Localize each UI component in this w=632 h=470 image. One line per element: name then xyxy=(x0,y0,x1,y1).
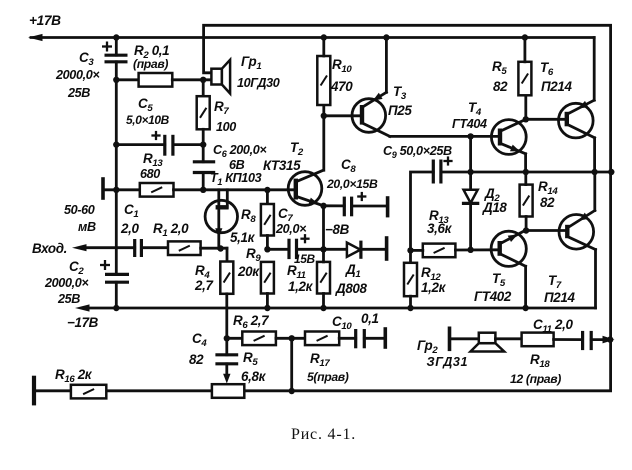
wire +17V top rail xyxy=(31,36,594,39)
wire C3 top stub xyxy=(115,38,118,56)
wire C9 left xyxy=(411,172,434,263)
wire T7 collector down xyxy=(594,250,597,309)
svg-text:2,7: 2,7 xyxy=(194,278,213,293)
junction C2/-17V xyxy=(113,305,119,311)
node D1 output terminal xyxy=(385,238,389,259)
wire R12 to rail xyxy=(409,296,412,308)
wire D2 bottom xyxy=(469,203,472,249)
junction feedback/bottom xyxy=(289,388,295,394)
node +17V arrow terminal xyxy=(28,34,43,41)
resistor R2 xyxy=(139,73,173,87)
junction D2/T5 base xyxy=(467,247,473,253)
svg-text:3,6к: 3,6к xyxy=(427,221,453,236)
junction R12 column/R13 xyxy=(407,247,413,253)
wire R13 to T5 base xyxy=(455,248,499,251)
svg-text:5(прав): 5(прав) xyxy=(307,370,349,384)
resistor R11 xyxy=(317,262,330,294)
svg-text:50-60: 50-60 xyxy=(64,203,95,217)
wire T3 base xyxy=(324,114,362,117)
svg-text:82: 82 xyxy=(540,195,555,210)
junction R6-R17/feedback xyxy=(289,335,295,341)
node C10 output terminal xyxy=(383,329,387,347)
wire node to C7 xyxy=(267,248,289,251)
junction C7 wire/R11 column xyxy=(320,246,326,252)
wire C8 to terminal xyxy=(352,205,388,208)
resistor R17 xyxy=(305,332,339,346)
junction C9 bus/T4 emitter xyxy=(523,169,529,175)
resistor R18 xyxy=(522,333,554,347)
transistor T2 KT315 xyxy=(288,170,323,206)
wire R17 to C10 xyxy=(339,337,356,340)
svg-text:2,0: 2,0 xyxy=(120,221,139,236)
svg-text:−8В: −8В xyxy=(325,222,350,237)
svg-text:2000,0×: 2000,0× xyxy=(44,276,89,290)
wire T5 collector to T7 base xyxy=(526,229,567,232)
capacitor C10 xyxy=(356,329,365,348)
wire R2 to Gr1 node xyxy=(172,78,211,81)
svg-text:0,1: 0,1 xyxy=(361,311,379,326)
wire to C8 xyxy=(324,204,345,207)
node -17V arrow xyxy=(75,304,90,311)
junction T2 emitter node xyxy=(320,203,326,209)
svg-text:Д808: Д808 xyxy=(335,281,368,296)
label C3 plus xyxy=(102,42,112,52)
svg-text:Вход.: Вход. xyxy=(32,241,67,256)
svg-text:5,1к: 5,1к xyxy=(230,230,256,245)
wire R10 to rail xyxy=(322,38,325,57)
wire C9 right bus xyxy=(441,171,611,174)
wire jog down to R4 xyxy=(226,248,229,261)
junction column/probe wire xyxy=(113,187,119,193)
node output arrow xyxy=(603,336,615,344)
svg-text:мВ: мВ xyxy=(78,220,96,234)
resistor R14 xyxy=(520,185,533,217)
wire R18 to C11 xyxy=(554,338,583,341)
junction T5 emitter/-17V xyxy=(522,305,528,311)
capacitor C3 xyxy=(105,55,128,62)
resistor R9 xyxy=(261,262,274,294)
svg-text:Рис. 4-1.: Рис. 4-1. xyxy=(291,426,356,443)
label C9 plus xyxy=(443,156,452,165)
wire C2 to -17V rail xyxy=(115,282,118,308)
svg-text:2000,0×: 2000,0× xyxy=(55,68,100,82)
capacitor C1 xyxy=(135,239,142,257)
wire -17V rail xyxy=(89,307,596,310)
wire outer feedback box xyxy=(36,25,611,391)
wire input to C1 xyxy=(86,246,135,249)
wire C3col to C5 xyxy=(116,143,165,146)
label C5 plus xyxy=(151,131,160,140)
junction R11/-17V xyxy=(320,305,326,311)
wire C1 to R1 xyxy=(141,246,168,249)
junction T4 collector/R5 xyxy=(523,116,529,122)
svg-text:20,0×15В: 20,0×15В xyxy=(326,177,378,191)
junction R9/-17V xyxy=(264,305,270,311)
svg-text:20к: 20к xyxy=(237,264,260,279)
wire T2 collector column xyxy=(322,105,325,170)
svg-text:П214: П214 xyxy=(544,290,575,305)
node C8 output terminal xyxy=(386,198,390,216)
svg-text:82: 82 xyxy=(493,79,508,94)
svg-text:П214: П214 xyxy=(541,79,572,94)
wire C6 to base wire xyxy=(202,173,205,190)
wire C3 to C2 column xyxy=(115,62,118,275)
capacitor C6 xyxy=(193,162,215,173)
junction rail/R10 xyxy=(321,34,327,40)
junction T1 source/input xyxy=(217,245,223,251)
transistor T5 GT402 xyxy=(491,231,526,267)
wire D2 top xyxy=(469,136,472,189)
junction rail/R5 xyxy=(522,34,528,40)
wire R14 top stub xyxy=(524,172,527,185)
wire node to R7 xyxy=(202,80,205,96)
junction C3col/C5 wire xyxy=(113,141,119,147)
capacitor C5 xyxy=(165,135,173,156)
loudspeaker Gr2 xyxy=(471,333,505,352)
junction T3 base tap xyxy=(321,113,327,119)
svg-text:1,2к: 1,2к xyxy=(421,280,447,295)
wire C4 wiper xyxy=(225,364,228,376)
wire gate bus to T2 base xyxy=(174,188,296,191)
label C7 plus xyxy=(300,234,309,243)
resistor R1 xyxy=(168,241,201,255)
capacitor C2 xyxy=(105,274,129,282)
wire T5 emitter to rail xyxy=(524,266,527,308)
wire T4 collector to R5 xyxy=(524,95,527,119)
svg-text:82: 82 xyxy=(189,352,204,367)
wire Gr2 to R18 xyxy=(495,337,521,340)
resistor R5 82 xyxy=(518,62,531,96)
resistor R7 xyxy=(197,96,210,129)
capacitor C8 xyxy=(344,197,351,217)
transistor T3 P25 xyxy=(352,92,390,136)
svg-text:470: 470 xyxy=(330,79,353,94)
svg-text:ЗГД31: ЗГД31 xyxy=(427,355,469,369)
svg-text:25В: 25В xyxy=(67,86,90,100)
junction R4/C4/R6 node xyxy=(224,335,230,341)
wire R11 to rail xyxy=(322,249,325,262)
junction R8-R9/C7 xyxy=(264,246,270,252)
wire D1 to terminal xyxy=(361,248,387,251)
junction C3 column / R2 wire xyxy=(113,77,119,83)
capacitor C11 xyxy=(583,331,592,350)
wire C11 to box xyxy=(591,338,608,341)
junction R14/T5 collector xyxy=(523,227,529,233)
wire T4 emitter down xyxy=(524,154,527,172)
wire T7 emitter up xyxy=(593,172,596,211)
wire feedback drop xyxy=(290,338,293,391)
wire to R2 xyxy=(116,78,138,81)
svg-text:12 (прав): 12 (прав) xyxy=(510,372,561,386)
node Gr2 terminal xyxy=(448,328,452,349)
wire T3 emitter to rail xyxy=(385,38,388,93)
wire R13 left stub xyxy=(411,249,423,252)
resistor R13 680 xyxy=(140,183,174,197)
node input arrow xyxy=(72,244,87,251)
svg-text:25В: 25В xyxy=(57,292,80,306)
resistor R6 xyxy=(242,332,276,346)
wire R5 to rail xyxy=(524,38,527,62)
resistor R12 xyxy=(404,263,417,296)
node wiper arrow xyxy=(223,374,230,384)
svg-text:6В: 6В xyxy=(229,158,245,172)
junction C5/column xyxy=(200,141,206,147)
svg-text:15В: 15В xyxy=(294,252,316,266)
wire R14 bottom stub xyxy=(525,217,528,231)
svg-text:5,0×10В: 5,0×10В xyxy=(126,113,170,127)
wire C5 to column xyxy=(173,143,203,146)
svg-text:С6​ 200,0×: С6​ 200,0× xyxy=(213,143,267,159)
wire R9 to rail xyxy=(266,294,269,309)
svg-text:КТ315: КТ315 xyxy=(263,158,301,173)
wire C7 to D1 xyxy=(297,248,347,251)
wire T6 collector down xyxy=(593,138,596,172)
junction base bus/R8 xyxy=(264,187,270,193)
svg-text:−17В: −17В xyxy=(67,315,99,330)
svg-text:6,8к: 6,8к xyxy=(241,369,267,384)
wire node to R6 xyxy=(227,337,243,340)
svg-text:Д18: Д18 xyxy=(482,200,507,215)
transistor T4 GT404 xyxy=(491,119,526,154)
transistor T7 P214 xyxy=(559,211,596,250)
wire Gr2 lead xyxy=(450,337,479,340)
capacitor C7 xyxy=(289,239,297,259)
junction column/C6 bottom xyxy=(200,187,206,193)
node 50-60mV terminal xyxy=(101,179,105,198)
wire R4 to C4 node xyxy=(225,294,228,339)
svg-text:ГТ402: ГТ402 xyxy=(474,289,512,304)
wire emitter node to R11 xyxy=(322,206,325,250)
junction T4 base wire/D2 xyxy=(467,133,473,139)
diode D1 xyxy=(347,242,361,257)
svg-text:ГТ404: ГТ404 xyxy=(452,117,487,131)
junction output/box xyxy=(607,336,613,342)
wire T6 base xyxy=(526,118,567,121)
resistor R16 xyxy=(71,385,106,399)
resistor R4 xyxy=(220,262,233,294)
label C8 plus xyxy=(357,192,366,201)
junction R12/-17V xyxy=(407,305,413,311)
wire R6 to R17 xyxy=(276,337,305,340)
junction rail/T3 xyxy=(383,34,389,40)
svg-text:10ГД30: 10ГД30 xyxy=(237,76,280,90)
wire R7 to C6 xyxy=(202,129,205,162)
svg-text:100: 100 xyxy=(216,120,236,134)
wire C4 top xyxy=(225,338,228,355)
junction Gr1/R2/R7 node xyxy=(200,77,206,83)
junction C9 bus/D2 column xyxy=(467,169,473,175)
wire R8 to C7 node xyxy=(266,236,269,250)
svg-text:П25: П25 xyxy=(388,103,412,118)
svg-text:(прав): (прав) xyxy=(133,57,168,71)
wire R8 stub xyxy=(266,190,269,204)
capacitor C4 xyxy=(215,355,238,364)
transistor T1 KP103 (FET) xyxy=(205,190,237,249)
wire T3 collector to T4 base xyxy=(390,135,500,138)
resistor R10 xyxy=(317,56,330,105)
wire rail drop to T6 emitter xyxy=(593,38,596,101)
transistor T6 P214 xyxy=(559,100,595,138)
resistor R5 6,8k (pot) xyxy=(212,384,244,398)
resistor R13 3,6k xyxy=(423,244,456,258)
junction C9 bus/outer box xyxy=(608,169,614,175)
wire R1 to T1 source node xyxy=(201,247,227,250)
svg-text:20,0×: 20,0× xyxy=(275,222,307,236)
junction rail/C3 xyxy=(113,34,119,40)
wire R11 bottom stub xyxy=(322,294,325,309)
junction C9 bus/T6 collector xyxy=(591,169,597,175)
wire probe to column xyxy=(103,188,140,191)
label C2 plus xyxy=(100,260,110,270)
svg-text:1,2к: 1,2к xyxy=(288,279,314,294)
diode D2 xyxy=(464,190,478,204)
capacitor C9 xyxy=(433,160,441,184)
node bottom left terminal xyxy=(32,378,36,404)
svg-text:680: 680 xyxy=(140,167,160,181)
wire C10 to terminal xyxy=(364,337,385,340)
loudspeaker Gr1 xyxy=(211,60,230,94)
svg-text:+17В: +17В xyxy=(29,13,61,28)
resistor R8 xyxy=(261,204,274,236)
